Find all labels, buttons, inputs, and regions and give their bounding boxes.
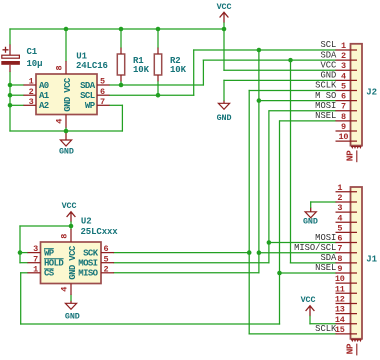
svg-text:6: 6 (100, 87, 105, 97)
svg-text:3: 3 (337, 203, 342, 213)
svg-text:8: 8 (341, 112, 346, 122)
svg-text:GND: GND (320, 71, 336, 81)
svg-text:24LC16: 24LC16 (76, 61, 108, 71)
svg-text:NSEL: NSEL (315, 263, 336, 273)
svg-text:9: 9 (341, 122, 346, 132)
svg-text:GND: GND (68, 264, 78, 280)
svg-text:U2: U2 (81, 216, 92, 226)
svg-text:4: 4 (341, 71, 346, 81)
svg-text:NP: NP (344, 150, 355, 161)
svg-text:10K: 10K (133, 65, 150, 75)
svg-text:14: 14 (335, 315, 345, 325)
svg-text:9: 9 (337, 264, 342, 274)
svg-text:15: 15 (335, 325, 345, 335)
svg-text:A2: A2 (39, 101, 49, 111)
svg-text:2: 2 (337, 193, 342, 203)
svg-text:C1: C1 (27, 47, 38, 57)
svg-text:MOSI: MOSI (315, 233, 336, 243)
svg-text:7: 7 (341, 102, 346, 112)
svg-text:8: 8 (337, 254, 342, 264)
svg-text:WP: WP (44, 249, 55, 259)
svg-text:MISO: MISO (78, 269, 98, 279)
svg-text:VCC: VCC (68, 245, 78, 261)
svg-text:GND: GND (59, 147, 74, 157)
svg-text:U1: U1 (76, 51, 87, 61)
svg-text:6: 6 (337, 234, 342, 244)
svg-text:SDA: SDA (80, 81, 96, 91)
svg-text:1: 1 (29, 77, 34, 87)
svg-text:8: 8 (60, 234, 70, 239)
svg-text:5: 5 (100, 77, 105, 87)
svg-text:WP: WP (85, 101, 96, 111)
svg-text:SCLK: SCLK (315, 324, 337, 334)
svg-text:J2: J2 (366, 87, 377, 97)
svg-text:SCK: SCK (83, 249, 99, 259)
svg-text:4: 4 (337, 213, 342, 223)
svg-text:8: 8 (55, 65, 65, 70)
svg-text:3: 3 (341, 61, 346, 71)
svg-text:6: 6 (104, 244, 109, 254)
svg-text:6: 6 (341, 92, 346, 102)
svg-text:SCLK: SCLK (315, 81, 337, 91)
svg-text:VCC: VCC (320, 60, 336, 70)
svg-text:3: 3 (33, 244, 38, 254)
svg-text:NP: NP (344, 343, 355, 354)
svg-text:M SO: M SO (315, 91, 336, 101)
svg-text:7: 7 (33, 254, 38, 264)
svg-text:GND: GND (217, 113, 232, 123)
svg-text:GND: GND (63, 96, 73, 112)
svg-text:VCC: VCC (301, 295, 316, 305)
svg-text:10µ: 10µ (27, 59, 43, 69)
svg-text:2: 2 (341, 51, 346, 61)
svg-text:NSEL: NSEL (315, 111, 336, 121)
svg-text:1: 1 (341, 41, 346, 51)
svg-text:2: 2 (104, 264, 109, 274)
svg-text:1: 1 (337, 183, 342, 193)
svg-text:HOLD: HOLD (44, 259, 64, 269)
svg-text:GND: GND (65, 311, 80, 321)
svg-text:13: 13 (335, 305, 345, 315)
svg-text:10K: 10K (170, 65, 187, 75)
svg-text:4: 4 (60, 287, 70, 292)
svg-text:SDA: SDA (320, 50, 337, 60)
svg-text:MISO/SCL: MISO/SCL (294, 243, 336, 253)
svg-text:12: 12 (335, 294, 345, 304)
svg-text:4: 4 (55, 119, 65, 124)
svg-text:VCC: VCC (63, 77, 73, 93)
svg-text:10: 10 (335, 274, 345, 284)
svg-text:MOSI: MOSI (78, 259, 97, 269)
svg-text:A0: A0 (39, 81, 49, 91)
svg-text:CS: CS (44, 269, 55, 279)
svg-text:10: 10 (338, 132, 348, 142)
svg-text:5: 5 (337, 223, 342, 233)
svg-text:25LCxxx: 25LCxxx (81, 227, 119, 237)
svg-text:GND: GND (303, 217, 318, 227)
svg-text:5: 5 (341, 81, 346, 91)
svg-text:5: 5 (104, 254, 109, 264)
svg-text:J1: J1 (366, 255, 377, 265)
svg-text:VCC: VCC (62, 201, 77, 211)
svg-text:11: 11 (335, 284, 345, 294)
svg-text:1: 1 (33, 264, 38, 274)
svg-text:SCL: SCL (320, 40, 336, 50)
svg-text:2: 2 (29, 87, 34, 97)
svg-text:MOSI: MOSI (315, 101, 336, 111)
svg-text:3: 3 (29, 97, 34, 107)
svg-text:7: 7 (337, 244, 342, 254)
svg-text:SDA: SDA (320, 253, 337, 263)
svg-text:SCL: SCL (80, 91, 95, 101)
svg-text:A1: A1 (39, 91, 50, 101)
svg-text:7: 7 (100, 97, 105, 107)
svg-text:VCC: VCC (217, 2, 232, 12)
